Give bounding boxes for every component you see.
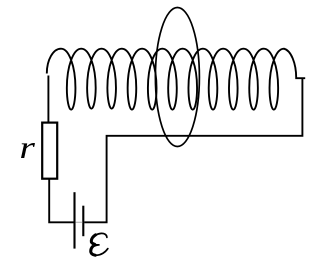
battery E: short plate	[82, 206, 84, 237]
ellipse: flux loop around solenoid	[155, 8, 199, 147]
battery E: long plate	[73, 192, 75, 248]
inductor L1 (solenoid coil)	[47, 49, 305, 110]
wire: battery to right riser and mid horizontal run	[84, 78, 302, 222]
wire: resistor bottom to battery	[49, 179, 73, 223]
resistor r	[42, 123, 57, 179]
label r	[21, 143, 35, 158]
wire: coil left lead down to resistor	[47, 76, 49, 123]
label EMF script-E	[91, 233, 108, 255]
wire: faint segment between battery plates	[76, 221, 83, 223]
